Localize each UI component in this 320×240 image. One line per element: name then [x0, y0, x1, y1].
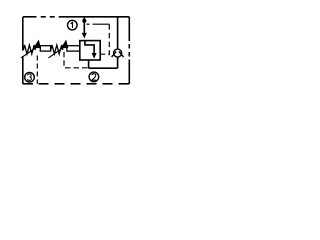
check valve (ball in seat): [112, 49, 124, 57]
node: port 1 junction dot: [82, 19, 86, 23]
enclosure top edge (dashed boundary of cartridge): [23, 16, 129, 18]
enclosure bottom edge: [23, 83, 130, 85]
pilot line from port 1 line to right of main stage (dashed): [87, 24, 110, 55]
port 3 label circle: [25, 72, 35, 82]
spring 1 (zigzag): [23, 45, 35, 54]
wire: check valve lower line: [117, 57, 119, 68]
port 1 label circle: [68, 20, 78, 30]
flow path arrow inside main stage: [85, 41, 97, 59]
enclosure left edge: [22, 17, 24, 84]
port 2 label circle: [89, 72, 99, 82]
wire: main stage outlet down: [88, 60, 90, 68]
wire: port 1 line down to main stage with flow arrow: [82, 17, 87, 39]
enclosure right edge: [128, 17, 130, 84]
pilot line from spring chamber to port 2 line (dashed): [64, 52, 89, 68]
wire: check valve upper line: [117, 17, 119, 50]
spring seat box 1: [40, 46, 50, 51]
adjustment arrow over spring 2: [48, 40, 68, 58]
spring seat box 2 (piston link to main stage): [67, 46, 80, 51]
wire: port 2 horizontal line: [89, 67, 118, 69]
pilot line from port 3 (dashed vertical): [36, 56, 38, 84]
spring 2 (zigzag): [51, 45, 63, 54]
main relief stage square: [80, 41, 100, 60]
adjustment arrow over spring 1: [21, 40, 41, 58]
